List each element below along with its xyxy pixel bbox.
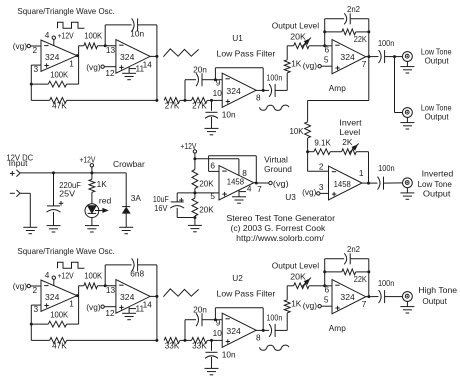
junction integrator osc1 pin13: [104, 44, 107, 47]
ground - input: [23, 226, 37, 228]
wire +12V rail: [20, 172, 126, 174]
junction U2 output: [256, 329, 263, 331]
junction LPF node B: [210, 339, 213, 342]
junction virtual ground output: [254, 182, 256, 184]
junction amp pin6: [323, 284, 326, 287]
svg-text:7: 7: [257, 184, 262, 194]
svg-text:1: 1: [69, 299, 74, 309]
svg-text:2K: 2K: [342, 137, 353, 147]
op-amp U-A osc2 324: [41, 280, 77, 311]
ground LPF cap: [205, 127, 219, 129]
svg-text:Output Level: Output Level: [272, 261, 319, 271]
junction output split: [393, 55, 396, 58]
junction LPF input: [155, 99, 158, 102]
svg-text:(vg): (vg): [303, 300, 318, 310]
svg-text:20n: 20n: [193, 64, 207, 74]
svg-text:12: 12: [105, 308, 115, 318]
svg-text:4: 4: [45, 30, 50, 40]
connector - input: [10, 192, 15, 194]
svg-text:U1: U1: [232, 33, 243, 43]
svg-text:25V: 25V: [59, 189, 75, 199]
svg-text:U2: U2: [232, 273, 243, 283]
svg-text:Low Pass Filter: Low Pass Filter: [217, 288, 276, 298]
junction LPF node A: [184, 339, 187, 342]
resistor 1K LED: [91, 173, 93, 179]
capacitor 20n LPF feedback: [184, 320, 186, 341]
svg-text:33K: 33K: [192, 340, 207, 350]
svg-text:324: 324: [226, 86, 241, 96]
resistor 100K osc2 feedback: [31, 323, 48, 325]
svg-text:10n: 10n: [130, 28, 144, 38]
op-amp amp 324: [332, 280, 366, 314]
svg-text:+12V: +12V: [58, 30, 74, 40]
svg-text:11: 11: [135, 303, 144, 313]
svg-text:100n: 100n: [378, 163, 395, 173]
svg-text:6: 6: [210, 161, 215, 171]
resistor 1K amp input: [286, 313, 288, 331]
op-amp U3 1458 inverter: [329, 166, 363, 200]
node +12V terminal osc1: [52, 36, 55, 39]
resistor 20K divider lower: [194, 193, 196, 198]
svg-text:5: 5: [324, 295, 329, 305]
resistor 47K osc2 feedback: [31, 339, 49, 341]
op-amp U-B integrator osc1 324: [116, 40, 150, 74]
svg-text:22K: 22K: [354, 34, 367, 44]
svg-text:33K: 33K: [165, 340, 180, 350]
square wave symbol osc2: [58, 262, 85, 268]
node (vg) terminal integrator osc1 pin12: [101, 65, 104, 68]
ground crowbar: [119, 226, 133, 228]
svg-text:6n8: 6n8: [130, 268, 144, 278]
svg-text:8: 8: [256, 333, 261, 343]
svg-text:27K: 27K: [165, 100, 180, 110]
svg-text:Virtual: Virtual: [264, 155, 288, 165]
svg-text:20K: 20K: [199, 205, 214, 215]
resistor 27K LPF first: [164, 98, 180, 104]
svg-text:1K: 1K: [291, 58, 302, 68]
svg-text:red: red: [99, 196, 112, 206]
svg-text:1K: 1K: [291, 298, 302, 308]
svg-text:20K: 20K: [290, 272, 306, 282]
resistor 100K osc2 to integrator: [79, 285, 84, 287]
wire osc1 pin3 to feedback: [31, 64, 41, 66]
ground LED: [85, 225, 99, 227]
output jack low tone 2: [403, 108, 413, 118]
output jack low tone 1: [403, 52, 413, 62]
junction amp pin6: [323, 44, 326, 47]
svg-text:10n: 10n: [222, 110, 236, 120]
svg-text:(c) 2003 G. Forrest Cook: (c) 2003 G. Forrest Cook: [231, 223, 327, 233]
svg-text:10K: 10K: [290, 126, 304, 136]
resistor 9.1K invert feedback: [308, 151, 314, 153]
resistor 33K LPF first: [164, 338, 180, 344]
diode 3A crowbar: [125, 173, 127, 207]
svg-text:10n: 10n: [222, 350, 236, 360]
svg-text:16V: 16V: [154, 203, 168, 213]
triangle wave symbol osc1: [163, 49, 198, 57]
node +12V terminal osc2: [52, 276, 55, 279]
wire U3A feedback: [208, 156, 210, 172]
svg-text:2: 2: [32, 285, 37, 295]
wire integrator osc2 output: [150, 295, 157, 297]
junction 10uF bottom: [193, 216, 196, 219]
wire U3A pin5: [195, 192, 219, 194]
svg-text:http://www.solorb.com/: http://www.solorb.com/: [236, 233, 324, 243]
capacitor 10n LPF to ground: [211, 100, 213, 110]
wire amp pin5: [321, 305, 332, 307]
node (vg) terminal U3 pin3: [317, 192, 320, 195]
svg-text:20n: 20n: [193, 304, 207, 314]
junction invert node: [306, 150, 309, 153]
capacitor 2n2 amp feedback: [325, 18, 344, 20]
svg-text:Output: Output: [423, 189, 451, 199]
svg-text:(vg): (vg): [303, 60, 318, 70]
resistor 100K osc1 to integrator: [79, 45, 84, 47]
wire osc1 pin2: [31, 45, 42, 47]
wire to output jack: [395, 56, 403, 58]
capacitor 10n LPF to ground: [211, 340, 213, 350]
node (vg) terminal amp pin5: [318, 65, 321, 68]
node (vg) output terminal: [269, 181, 272, 184]
svg-text:+12V: +12V: [80, 154, 96, 164]
svg-text:Square/Triangle Wave Osc.: Square/Triangle Wave Osc.: [17, 246, 115, 256]
ground integrator osc2 pin11: [128, 307, 130, 314]
wire amp output to invert stage: [368, 57, 370, 101]
junction osc2 pin3 node: [30, 323, 33, 326]
svg-text:100K: 100K: [50, 69, 68, 79]
node (vg) terminal osc1 pin2: [27, 44, 30, 47]
junction U2 pin9: [214, 318, 217, 321]
svg-text:5: 5: [324, 55, 329, 65]
wire osc1 output node: [77, 55, 79, 57]
wire to low tone jack 2: [394, 57, 396, 113]
wire osc2 pin2: [31, 285, 42, 287]
svg-text:100K: 100K: [50, 309, 68, 319]
svg-text:27K: 27K: [192, 100, 207, 110]
svg-text:100n: 100n: [266, 313, 282, 323]
capacitor 10n integrator osc1 feedback: [104, 25, 106, 46]
svg-text:2: 2: [319, 162, 324, 172]
svg-text:Input: Input: [9, 158, 28, 168]
svg-text:22K: 22K: [354, 274, 367, 284]
svg-text:324: 324: [340, 52, 355, 62]
svg-text:Ground: Ground: [264, 164, 292, 174]
junction virtual ground node: [194, 189, 196, 193]
svg-text:3: 3: [319, 182, 324, 192]
svg-text:(vg): (vg): [13, 41, 28, 51]
svg-text:100n: 100n: [378, 278, 395, 288]
ground U3A pin4: [238, 190, 240, 197]
svg-text:10: 10: [213, 88, 223, 98]
sine wave symbol: [260, 345, 289, 350]
svg-text:7: 7: [362, 59, 367, 69]
svg-text:11: 11: [135, 63, 144, 73]
svg-text:12: 12: [105, 68, 115, 78]
capacitor 100n inverted output: [369, 182, 378, 184]
wire osc2 output node: [77, 295, 79, 297]
op-amp U1 324 low pass filter: [222, 73, 256, 107]
svg-text:Inverted: Inverted: [422, 169, 454, 179]
svg-text:Output: Output: [422, 296, 447, 306]
wire U3A pin6: [209, 170, 219, 172]
LED red power indicator: [91, 192, 93, 204]
svg-text:Amp: Amp: [329, 83, 346, 93]
wire amp pin6: [325, 45, 332, 47]
svg-text:47K: 47K: [52, 340, 67, 350]
svg-text:1: 1: [69, 59, 74, 69]
svg-text:Stereo Test Tone Generator: Stereo Test Tone Generator: [226, 213, 335, 223]
svg-text:Low Pass Filter: Low Pass Filter: [217, 48, 276, 58]
svg-text:(vg): (vg): [13, 281, 28, 291]
svg-text:324: 324: [120, 52, 135, 62]
resistor 10K invert input: [307, 101, 309, 122]
op-amp U-B integrator osc2 324: [116, 280, 150, 314]
svg-text:13: 13: [106, 45, 116, 55]
junction U3 output: [362, 182, 369, 184]
output jack high tone: [403, 292, 413, 302]
svg-text:324: 324: [226, 326, 241, 336]
wire osc2 pin3 to feedback: [31, 304, 41, 306]
node (vg) terminal amp pin5: [318, 305, 321, 308]
svg-text:U3: U3: [285, 192, 296, 202]
svg-text:20K: 20K: [290, 32, 306, 42]
svg-text:2n2: 2n2: [347, 4, 360, 14]
svg-text:Square/Triangle Wave Osc.: Square/Triangle Wave Osc.: [17, 6, 115, 16]
junction integrator osc2 pin13: [104, 284, 107, 287]
op-amp amp 324: [332, 40, 366, 74]
wire amp pin5: [321, 65, 332, 67]
svg-text:1458: 1458: [334, 179, 351, 189]
wire U2 feedback loop: [214, 308, 216, 320]
svg-text:4: 4: [45, 270, 50, 280]
potentiometer 20K output level: [287, 45, 293, 47]
junction LPF node B: [210, 99, 213, 102]
capacitor 10uF 16V virtual ground: [177, 192, 195, 194]
output jack inverted low tone: [403, 178, 413, 188]
svg-text:2n2: 2n2: [347, 244, 360, 254]
svg-text:(vg): (vg): [302, 187, 317, 197]
svg-text:3: 3: [33, 64, 38, 74]
resistor 22K amp feedback: [324, 259, 326, 286]
junction U1 pin9: [214, 78, 217, 81]
wire to output jack: [395, 296, 403, 298]
junction U1 output: [256, 89, 263, 91]
svg-text:Crowbar: Crowbar: [113, 159, 145, 169]
wire osc1 pin4 +12V stub: [53, 39, 55, 45]
junction LPF input: [155, 339, 158, 342]
svg-text:324: 324: [45, 292, 60, 302]
resistor 100K osc1 feedback: [31, 83, 48, 85]
capacitor 100n amp output: [369, 56, 379, 58]
svg-text:Output Level: Output Level: [272, 21, 319, 31]
junction osc1 pin3 node: [30, 83, 33, 86]
wire osc2 pin4 +12V stub: [53, 279, 55, 285]
wire integrator osc1 output: [150, 55, 157, 57]
svg-text:Level: Level: [339, 127, 360, 137]
svg-text:100n: 100n: [266, 73, 282, 83]
svg-text:4: 4: [247, 184, 252, 194]
connector + input: [10, 172, 15, 174]
ground LPF cap: [205, 367, 219, 369]
resistor 1K amp input: [286, 73, 288, 91]
svg-text:(vg): (vg): [86, 302, 101, 312]
wire invert feedback to output: [368, 152, 370, 183]
svg-text:324: 324: [120, 292, 135, 302]
triangle wave symbol osc2: [163, 289, 198, 297]
svg-text:324: 324: [45, 52, 60, 62]
svg-text:Output: Output: [425, 112, 450, 122]
op-amp U-A osc1 324: [41, 40, 77, 71]
junction osc1 output: [76, 54, 79, 57]
resistor 27K LPF second: [185, 99, 192, 101]
svg-text:Amp: Amp: [329, 323, 346, 333]
capacitor 20n LPF feedback: [184, 80, 186, 101]
svg-text:100n: 100n: [378, 38, 395, 48]
resistor 20K divider upper: [194, 159, 196, 170]
svg-text:100K: 100K: [84, 270, 102, 280]
capacitor 2n2 amp feedback: [325, 258, 344, 260]
capacitor 100n U2 output: [263, 329, 269, 331]
svg-text:3: 3: [33, 304, 38, 314]
potentiometer 20K output level: [287, 285, 293, 287]
svg-text:47K: 47K: [52, 100, 67, 110]
svg-text:7: 7: [362, 299, 367, 309]
junction amp output: [366, 56, 369, 58]
svg-text:1: 1: [359, 168, 364, 178]
capacitor 220uF 25V filter: [53, 173, 55, 206]
node (vg) terminal osc2 pin2: [27, 284, 30, 287]
capacitor 6n8 integrator osc2 feedback: [104, 265, 106, 286]
capacitor 100n amp output: [369, 296, 379, 298]
svg-text:100K: 100K: [84, 30, 102, 40]
ground 220uF: [47, 225, 61, 227]
svg-text:High Tone: High Tone: [418, 285, 457, 295]
svg-text:9.1K: 9.1K: [314, 137, 331, 147]
svg-text:324: 324: [340, 292, 355, 302]
junction 220uF: [52, 171, 55, 174]
potentiometer 2K invert level: [342, 149, 357, 155]
junction amp output: [366, 296, 369, 298]
node (vg) terminal integrator osc2 pin12: [101, 305, 104, 308]
svg-text:Output: Output: [425, 56, 450, 66]
wire invert node to U3 pin2: [307, 152, 309, 172]
svg-text:10: 10: [213, 328, 223, 338]
svg-text:(vg): (vg): [86, 62, 101, 72]
svg-text:5: 5: [210, 191, 215, 201]
svg-text:1K: 1K: [97, 179, 108, 189]
op-amp U2 324 low pass filter: [222, 313, 256, 347]
resistor 22K amp feedback: [324, 19, 326, 46]
resistor 33K LPF second: [185, 339, 192, 341]
svg-text:Invert: Invert: [339, 117, 362, 127]
wire integrator osc2 pin12: [104, 306, 116, 308]
ground integrator osc1 pin11: [128, 67, 130, 74]
junction osc2 output: [76, 294, 79, 297]
wire - input to ground: [20, 192, 30, 194]
junction LPF node A: [184, 99, 187, 102]
capacitor 100n U1 output: [263, 89, 269, 91]
junction virtual ground supply: [193, 157, 196, 160]
ground divider: [188, 224, 202, 226]
svg-text:9: 9: [216, 317, 221, 327]
junction 1K: [90, 171, 93, 174]
sine wave symbol: [260, 105, 289, 110]
svg-text:+12V: +12V: [58, 270, 74, 280]
wire +12V to U3 pin8: [195, 158, 239, 160]
wire U1 feedback loop: [214, 68, 216, 80]
svg-text:13: 13: [106, 285, 116, 295]
resistor 47K osc1 feedback: [31, 99, 49, 101]
op-amp U3A 1458 virtual ground: [219, 166, 254, 200]
wire integrator osc1 pin12: [104, 66, 116, 68]
svg-text:8: 8: [256, 93, 261, 103]
svg-text:(vg): (vg): [273, 178, 289, 188]
wire amp pin6: [325, 285, 332, 287]
svg-text:2: 2: [32, 45, 37, 55]
svg-text:3A: 3A: [131, 193, 142, 203]
wire U3 pin3: [320, 192, 329, 194]
svg-text:1458: 1458: [227, 177, 244, 187]
svg-text:9: 9: [216, 77, 221, 87]
square wave symbol osc1: [58, 22, 85, 28]
svg-text:20K: 20K: [199, 179, 214, 189]
